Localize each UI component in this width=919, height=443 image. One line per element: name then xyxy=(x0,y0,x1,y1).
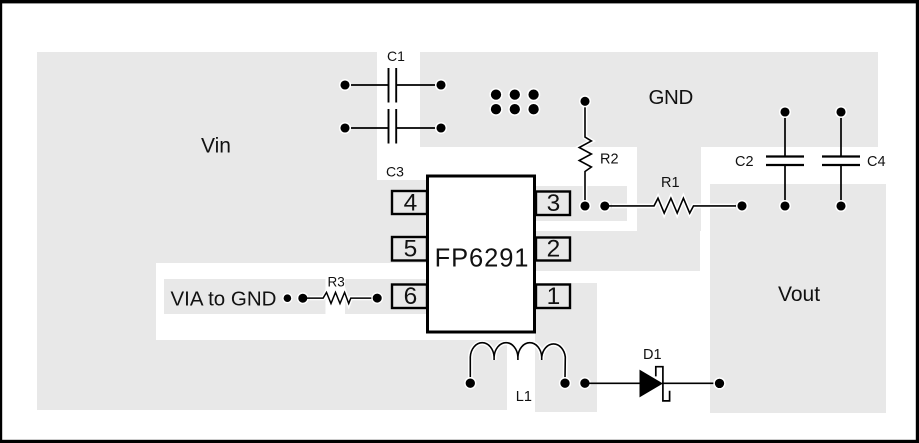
node dot L1 right xyxy=(580,378,591,389)
svg-text:D1: D1 xyxy=(643,347,662,363)
node dot Vout xyxy=(714,378,725,389)
svg-text:3: 3 xyxy=(547,190,561,217)
copper pour: pin1 column xyxy=(535,283,597,412)
node dot at R2 bottom xyxy=(580,201,591,212)
svg-text:GND: GND xyxy=(649,86,693,109)
pin 6 box xyxy=(392,285,427,309)
capacitor C2 xyxy=(766,112,804,206)
svg-text:R1: R1 xyxy=(661,175,680,191)
svg-text:Vin: Vin xyxy=(201,135,231,158)
wire D1 cathode to Vout node xyxy=(663,382,719,384)
svg-text:4: 4 xyxy=(404,190,418,217)
copper pour: VIA to GND band left xyxy=(164,279,326,314)
resistor R1 xyxy=(612,198,735,213)
svg-text:VIA to GND: VIA to GND xyxy=(171,288,277,311)
pin 4 box xyxy=(392,191,427,214)
svg-text:5: 5 xyxy=(404,236,418,263)
copper pour: pin2 band xyxy=(535,231,700,271)
copper pour: strip left of chip (pins 4,5) xyxy=(377,180,427,263)
svg-text:C4: C4 xyxy=(867,154,886,170)
node dot R1 right xyxy=(737,201,748,212)
svg-text:R2: R2 xyxy=(600,152,619,168)
svg-text:Vout: Vout xyxy=(778,283,820,306)
copper pour: left column below Vin xyxy=(37,263,156,410)
svg-text:2: 2 xyxy=(547,236,561,263)
svg-text:C2: C2 xyxy=(735,154,754,170)
svg-text:C1: C1 xyxy=(387,48,405,64)
pin 5 box xyxy=(392,237,427,261)
copper pour: Vin top-left region xyxy=(37,52,377,263)
capacitor C3 xyxy=(345,109,441,144)
copper pour: top GND band xyxy=(420,52,878,147)
svg-text:R3: R3 xyxy=(328,274,345,289)
wire L1 to D1 anode xyxy=(589,382,640,384)
svg-text:1: 1 xyxy=(547,283,561,310)
svg-text:6: 6 xyxy=(404,283,418,310)
via cluster (6 dots) xyxy=(490,89,539,115)
capacitor C1 xyxy=(345,68,441,103)
node dot R3 right xyxy=(372,293,382,303)
pin 3 box xyxy=(536,192,570,216)
pin 2 box xyxy=(536,238,570,261)
pin 1 box xyxy=(536,285,570,309)
resistor R2 xyxy=(579,102,591,207)
svg-text:FP6291: FP6291 xyxy=(435,245,530,273)
copper pour: VIA to GND band right xyxy=(345,279,427,314)
svg-text:L1: L1 xyxy=(516,389,532,405)
node dot pin3 xyxy=(600,201,611,212)
node dots VIA to GND xyxy=(283,294,292,303)
svg-text:C3: C3 xyxy=(386,164,404,180)
copper pour: pin3 patch xyxy=(535,186,627,221)
op-amp / IC U1 FP6291 body xyxy=(428,176,535,332)
copper pour: bottom band under chip xyxy=(156,340,507,410)
resistor R3 xyxy=(310,292,372,303)
inductor L1 xyxy=(470,343,565,379)
copper pour: mid strip under GND band xyxy=(637,147,701,231)
capacitor C4 xyxy=(822,112,860,206)
copper pour: Vout block xyxy=(710,184,886,413)
border frame xyxy=(0,0,919,3)
